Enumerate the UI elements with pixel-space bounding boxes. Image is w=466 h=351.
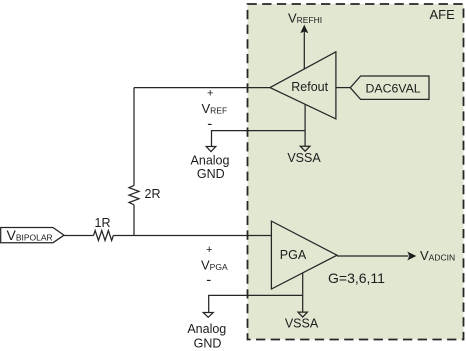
svg-text:GND: GND [197,167,225,181]
wire PGA VSSA [302,273,304,312]
svg-text:Refout: Refout [291,80,328,94]
ground analog top [206,147,216,152]
wire junction up to 2R [133,205,135,236]
ground VSSA bottom [298,312,307,317]
op-amp Refout [270,52,336,119]
svg-text:+: + [207,88,213,100]
wire VREF minus to VSSA line [212,131,306,147]
arrow VREFHI [300,25,308,34]
svg-text:AFE: AFE [430,7,456,22]
wire VBIPOLAR to 1R [64,235,94,237]
wire Refout VSSA [304,104,306,146]
svg-text:VPGA: VPGA [201,257,228,272]
svg-text:+: + [206,244,212,256]
svg-text:2R: 2R [145,187,161,201]
svg-text:Analog: Analog [187,322,226,336]
svg-text:G=3,6,11: G=3,6,11 [328,270,385,286]
wire PGA output [337,255,409,257]
arrow VADCIN [407,252,416,261]
tag DAC6VAL [350,76,429,99]
svg-text:-: - [207,116,212,133]
resistor 2R [129,185,139,204]
op-amp PGA [271,221,337,289]
wire to Refout apex [134,87,271,89]
wire PGA minus [209,295,303,312]
resistor 1R [94,231,114,241]
wire 1R to PGA [113,235,271,237]
svg-text:1R: 1R [95,216,111,230]
ground analog bottom [203,313,213,318]
svg-text:VREF: VREF [202,101,228,116]
tag VBIPOLAR [1,228,64,243]
svg-text:VSSA: VSSA [287,151,321,165]
ground VSSA top [300,146,310,151]
svg-text:-: - [206,271,211,288]
svg-text:DAC6VAL: DAC6VAL [366,81,421,95]
wire 2R up [133,88,135,186]
wire Refout to DAC6VAL [336,87,351,89]
wire VREFHI [303,32,305,70]
svg-text:PGA: PGA [280,248,307,262]
AFE dashed region [248,4,464,340]
svg-text:VSSA: VSSA [285,317,319,331]
svg-text:GND: GND [194,336,222,350]
svg-text:Analog: Analog [191,154,230,168]
